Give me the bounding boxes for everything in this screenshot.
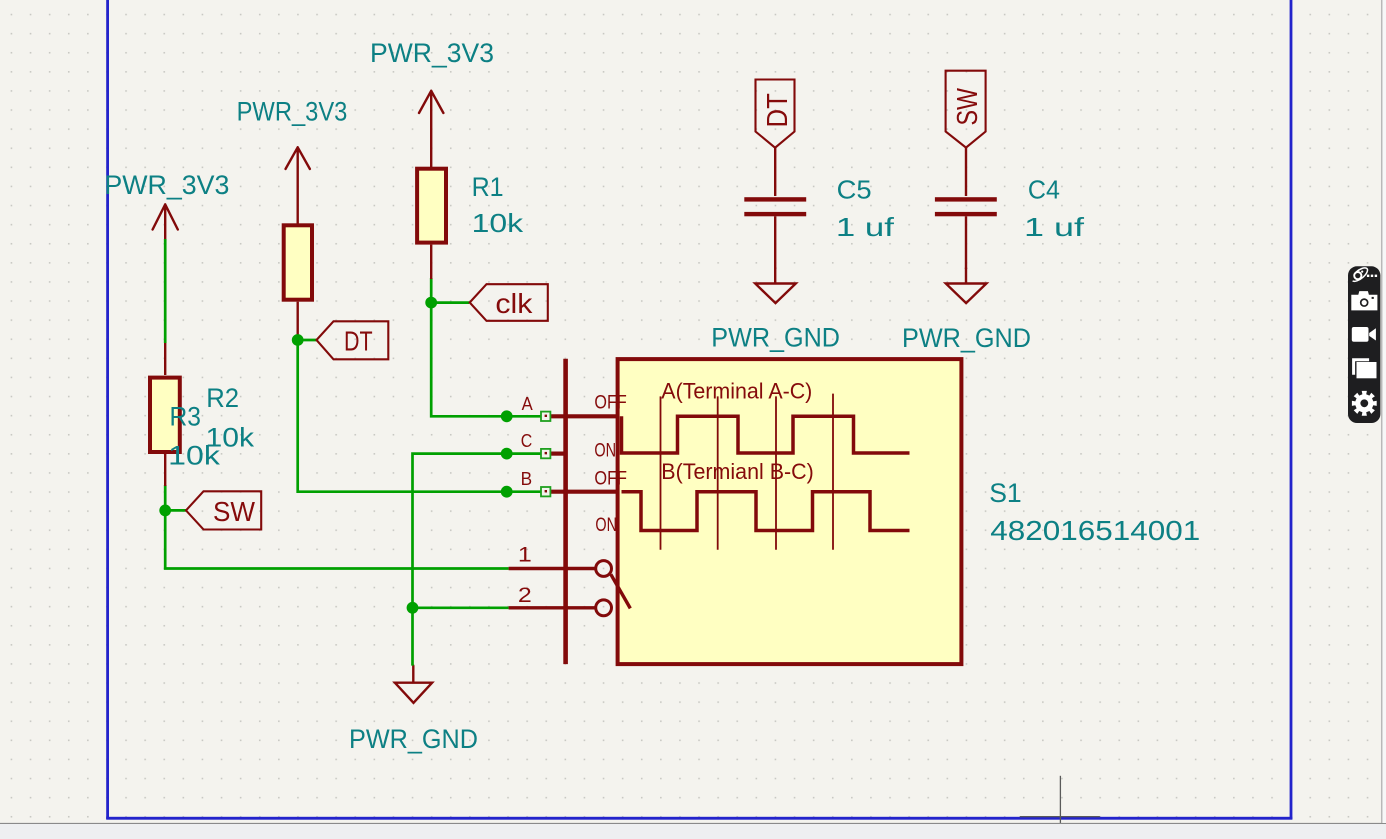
S1 pin 1 (509, 567, 596, 570)
S1 pin A (550, 414, 617, 418)
resistor R1 (417, 169, 446, 279)
svg-text:2: 2 (518, 584, 532, 607)
svg-text:1: 1 (518, 544, 532, 567)
power PWR_GND symbol under C4 (946, 268, 987, 303)
svg-text:SW: SW (213, 496, 256, 527)
svg-text:C5: C5 (837, 175, 872, 205)
global label DT (flag above C5) (756, 80, 795, 148)
wire R2 junction to DT label (298, 339, 317, 342)
sheet border bottom (106, 817, 1292, 820)
power PWR_GND symbol under C5 (755, 268, 796, 303)
junction pin 2 (407, 602, 419, 614)
S1 timing line 2 (717, 396, 719, 549)
resistor R3 (150, 343, 180, 486)
wire junction to clk label (431, 301, 469, 304)
pin end marker C (541, 449, 550, 458)
toolbar logo (1353, 268, 1368, 281)
S1 switch actuator (611, 574, 631, 608)
svg-text:10k: 10k (472, 208, 525, 238)
svg-text:ON: ON (594, 440, 616, 462)
svg-text:R2: R2 (206, 383, 239, 413)
capacitor C5 (744, 148, 806, 269)
junction SW (159, 505, 171, 517)
wire clk junction down to pin A (431, 303, 541, 417)
right scrollbar (1382, 0, 1386, 823)
wire R3 bottom to SW/pin1 corner (165, 485, 508, 569)
screen recorder toolbar (1348, 266, 1380, 423)
wire PWR_3V3 to R3 (164, 239, 167, 343)
junction pin A (501, 410, 513, 422)
svg-text:ON: ON (595, 514, 617, 536)
wire junction to SW label (165, 509, 186, 512)
S1 timing line 3 (775, 396, 777, 549)
wire pin 2 (413, 606, 509, 609)
S1 timing line 4 (832, 394, 834, 550)
power PWR_GND symbol bottom (395, 666, 432, 703)
pin end marker B (541, 487, 550, 496)
svg-text:OFF: OFF (594, 467, 627, 489)
svg-text:PWR_GND: PWR_GND (711, 323, 840, 353)
S1 pin C (550, 452, 565, 456)
bottom scrollbar (0, 823, 1386, 839)
S1 timing line 1 (660, 396, 662, 549)
junction pin B (501, 486, 513, 498)
svg-text:PWR_3V3: PWR_3V3 (370, 38, 494, 68)
svg-text:clk: clk (495, 288, 533, 319)
S1 pin B (550, 490, 617, 494)
junction pin C (501, 448, 513, 460)
svg-text:482016514001: 482016514001 (990, 515, 1200, 546)
svg-text:10k: 10k (168, 441, 220, 471)
svg-text:C4: C4 (1028, 175, 1060, 205)
toolbar copy icon (1352, 358, 1376, 378)
svg-text:DT: DT (344, 326, 373, 357)
cursor crosshair (1020, 776, 1100, 823)
svg-text:C: C (521, 430, 533, 451)
resistor R2 (284, 225, 312, 340)
svg-text:R1: R1 (472, 172, 504, 202)
svg-text:1 uf: 1 uf (1024, 212, 1085, 242)
svg-text:SW: SW (952, 87, 984, 125)
S1 pin 2 (509, 606, 596, 609)
power PWR_3V3 right arrow (419, 91, 443, 167)
global label DT (317, 321, 389, 359)
global label SW (flag above C4) (946, 71, 986, 148)
svg-text:B(Termianl B-C): B(Termianl B-C) (661, 459, 814, 484)
svg-text:PWR_3V3: PWR_3V3 (237, 97, 348, 127)
toolbar gear icon (1352, 391, 1377, 416)
sheet border right (1290, 0, 1293, 819)
svg-text:OFF: OFF (594, 391, 626, 413)
capacitor C4 (935, 148, 997, 269)
wire R1 bottom to clk junction (430, 278, 433, 303)
toolbar camera icon (1351, 291, 1377, 310)
svg-text:PWR_GND: PWR_GND (349, 724, 478, 754)
power PWR_3V3 left arrow (153, 204, 178, 240)
wire pin C to gnd vertical (413, 454, 542, 666)
switch S1 body (509, 359, 962, 664)
wire R2 down to pin B (298, 340, 541, 492)
sheet border left (106, 0, 109, 819)
power PWR_3V3 middle arrow (286, 147, 310, 223)
svg-text:DT: DT (762, 93, 794, 128)
S1 common bar line (563, 359, 568, 664)
svg-text:B: B (521, 468, 533, 489)
pin end marker A (541, 412, 550, 421)
svg-text:A(Terminal A-C): A(Terminal A-C) (661, 379, 812, 404)
S1 waveform B (622, 492, 910, 531)
svg-text:A: A (522, 393, 534, 414)
junction clk (425, 297, 437, 309)
toolbar video icon (1352, 327, 1376, 342)
global label SW (186, 491, 261, 529)
svg-text:1 uf: 1 uf (836, 212, 895, 242)
junction DT (292, 334, 304, 346)
svg-text:PWR_GND: PWR_GND (902, 323, 1031, 353)
svg-text:R3: R3 (170, 402, 201, 432)
svg-text:S1: S1 (989, 478, 1022, 508)
svg-text:PWR_3V3: PWR_3V3 (104, 170, 229, 200)
S1 waveform A (622, 416, 910, 453)
global label clk (470, 284, 548, 321)
